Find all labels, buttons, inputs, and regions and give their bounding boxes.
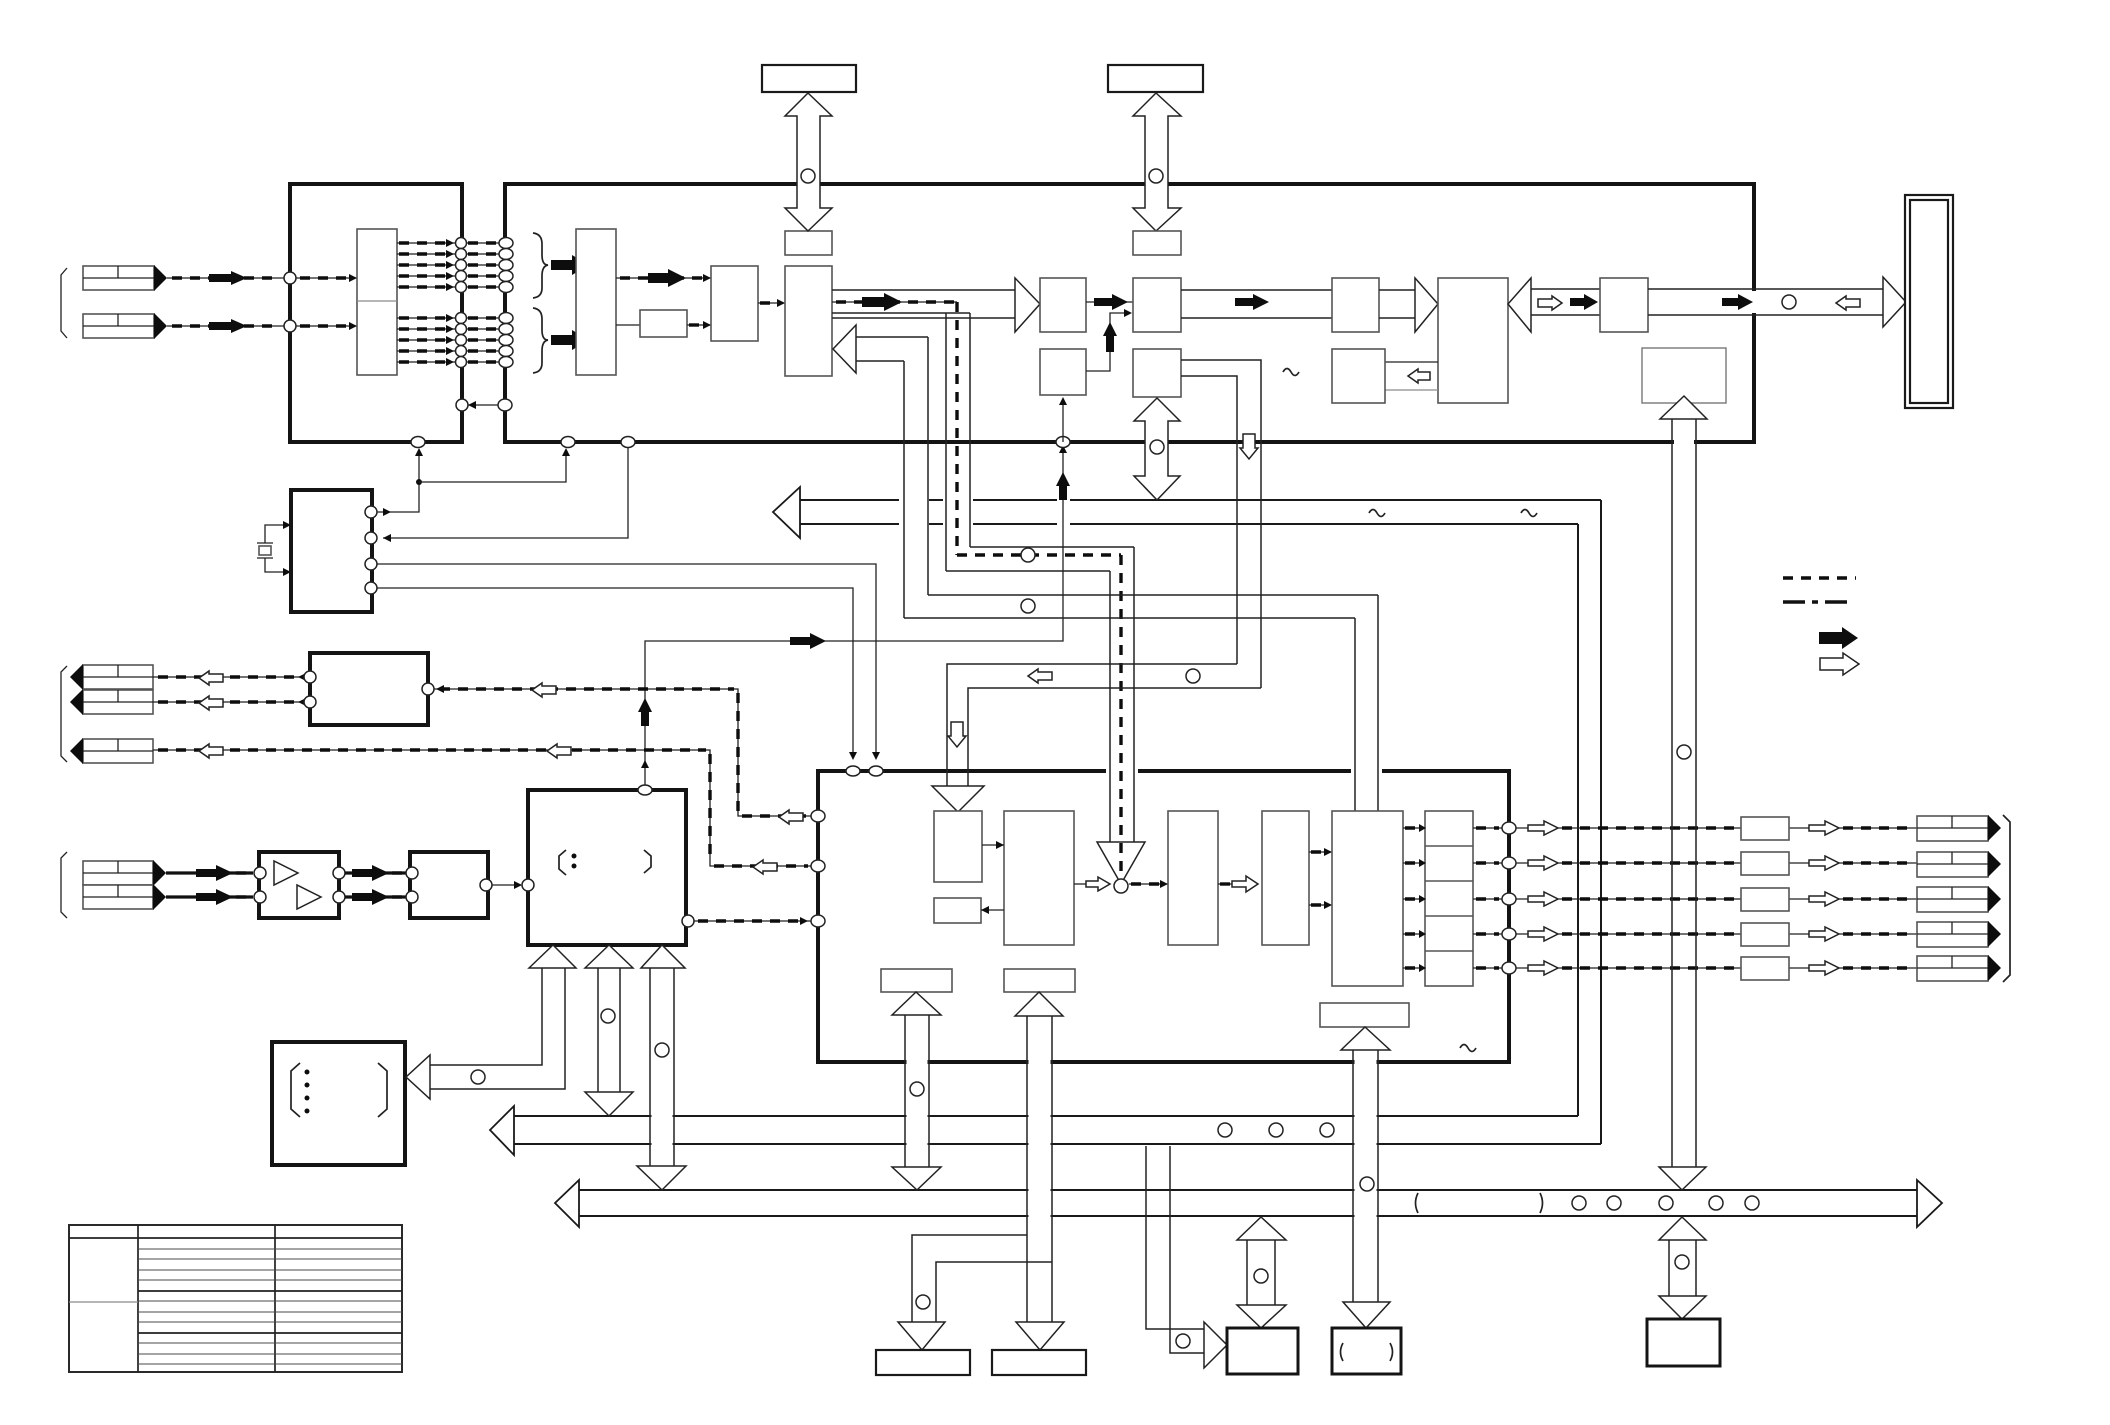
wire: bus-II hollow arrow into memory controller	[833, 325, 1378, 811]
wire: ADC lower out via delay rect	[616, 324, 640, 326]
node: oscillator pin circles	[365, 506, 377, 518]
wire: camera line 2 to amp	[166, 889, 253, 905]
glyph: big filled arrow lower into ADC	[551, 330, 589, 350]
block: Y/C main box	[1438, 278, 1508, 403]
block: amplifier box	[259, 852, 339, 918]
node: amp input circles	[254, 867, 266, 879]
wire: select to syscon	[492, 881, 522, 889]
block: bottom box 1	[876, 1350, 970, 1375]
glyph: legend filled arrow	[1819, 627, 1858, 649]
block: small delay rect	[640, 310, 687, 337]
node: central box top ellipses	[846, 766, 860, 776]
block: video process box 3	[1332, 278, 1379, 332]
wire: C-bus top horizontal (left-pointing wide arrow)	[773, 487, 1601, 538]
block: bottom box 4 with parens	[1332, 1328, 1401, 1374]
wire: dashed record signal inside bus	[832, 293, 957, 311]
block: timing/oscillator box	[291, 490, 372, 612]
wire: memory ctrl wide output bus with arrowhead	[832, 278, 1040, 332]
wire: vertical double arrow rect2 to small rect2	[1133, 93, 1181, 231]
wire: L2 bus down with branch to bottom boxes	[898, 992, 1064, 1350]
block: tv/tuner box	[310, 653, 428, 725]
wire: bus box2 to box3	[1181, 290, 1332, 318]
block: top external rect 2	[1108, 65, 1203, 92]
node: circles inside mid bus	[1218, 1123, 1232, 1137]
wire: L3 long double arrow down to box4	[1341, 1027, 1390, 1328]
block: mechanism box with dots	[272, 1042, 405, 1165]
wire: syscon double arrow to mid bus	[585, 945, 633, 1116]
node: amp output circles	[333, 867, 345, 879]
connector: mid-left plug 3 (output)	[70, 738, 153, 764]
wire: bus-I vertical down with arrowhead to junction	[1097, 547, 1145, 884]
block: memory controller tall box	[785, 266, 832, 376]
node: ellipses on top board bottom edge	[411, 437, 425, 448]
node: right edge ellipses x5	[1502, 822, 1516, 834]
block: lower small box 1 (sync sep)	[1040, 349, 1086, 395]
wire: ADC out dashed to EQ box	[616, 269, 711, 287]
wire: delay to EQ dashed	[687, 321, 711, 329]
wire: Y/C lower link to dropout box	[1385, 362, 1438, 390]
component: crystal on oscillator	[257, 521, 291, 576]
block: box F matrix	[1332, 811, 1403, 986]
block: box D	[1168, 811, 1218, 945]
node: syscon top ellipse	[638, 785, 652, 795]
wire: hollow arrow into Y/C from right bus	[1508, 278, 1600, 332]
wire: bus2 below main bus to box5 (double arrow)	[1659, 1217, 1706, 1319]
block: RF modulator box	[1600, 278, 1648, 332]
block: label box L1	[881, 969, 952, 992]
node: small circle column on left box right edge	[456, 238, 467, 368]
block: small rect above memory controller	[785, 231, 832, 255]
glyph: legend dashed line	[1783, 576, 1856, 579]
bracket: middle-left output bracket	[61, 666, 67, 762]
block: inner head-switch rect in left box	[357, 229, 397, 375]
node: circle between harness lines	[1021, 599, 1035, 613]
glyph: legend dash-dot line	[1783, 600, 1853, 603]
glyph: D to E thick hollow arrow	[1218, 876, 1258, 892]
wire: 10 dashed head lines group (upper)	[397, 239, 500, 291]
block: CRT display double rect	[1905, 195, 1953, 408]
block: tall ADC column box	[576, 229, 616, 375]
connector: camera plug 1	[83, 860, 166, 886]
block: small rect 2 above video box	[1133, 231, 1181, 255]
block: left big board box	[290, 184, 462, 442]
block: box B main dsp	[1004, 811, 1074, 945]
wire: E to F dashes	[1309, 848, 1332, 909]
node: ellipse column on right box left edge	[499, 238, 513, 368]
node: tuner right circle	[422, 683, 434, 695]
wire: double arrow main bus to box3	[1237, 1217, 1286, 1328]
wire: stack to right edge dashes x5	[1473, 828, 1502, 968]
block: dropout compensation box	[1332, 349, 1385, 403]
wire: dashed line plug2 to left box	[167, 319, 284, 333]
wire: vertical double hollow arrow below vco	[1134, 398, 1180, 500]
wire: tuner out2 dashed to plug2	[153, 696, 306, 710]
block: main top board box	[505, 184, 1754, 442]
connector: camera plug 2	[83, 884, 166, 910]
connector: top-left plug 1	[83, 265, 167, 291]
wire: 10 dashed head lines group (lower)	[397, 314, 500, 366]
block: 5 output driver small boxes	[1741, 817, 1789, 980]
wire: osc in2 from main board	[383, 448, 628, 542]
wire: syscon sense line up and over to main board	[638, 397, 1070, 786]
node: junction circle at dashed arrival	[1114, 879, 1128, 893]
bracket: right output bracket	[2003, 815, 2010, 982]
connector: top-left plug 2	[83, 313, 167, 339]
connector: mid-left plug 1 (output)	[70, 664, 153, 690]
block: output driver stack of 5	[1425, 811, 1473, 986]
component: amp triangle 1	[274, 861, 298, 885]
glyph: curly brace lower	[533, 308, 548, 373]
wire: dashed junction to box D	[1129, 880, 1168, 888]
node: tuner left edge circles	[304, 671, 316, 683]
wire: long dashed from elbow to plug3	[153, 744, 812, 874]
wire: servo bus from vco right to box A (Z path)	[932, 360, 1261, 812]
block: box C small	[934, 898, 981, 923]
glyph: hollow arrows after edge x5	[1528, 821, 1558, 975]
wire: osc out3 long to central box	[377, 564, 880, 760]
block: box A input stage	[934, 811, 982, 882]
wire: bus-I elbow right to video down bus	[946, 547, 1134, 571]
wire: branch from mid bus down to box3 (L path)	[1146, 1146, 1227, 1368]
wire: C-bus right vertical pair	[1578, 500, 1601, 1144]
block: bottom right box 5	[1647, 1319, 1720, 1366]
block: box E	[1262, 811, 1309, 945]
block: input select box	[410, 852, 488, 918]
wire: B to C arrow (left)	[981, 906, 1004, 914]
wire: tuner right dashed to central box	[434, 683, 812, 824]
block: top external rect 1 (cassette memory)	[762, 65, 856, 92]
bracket: top-left input bracket	[61, 268, 67, 338]
wire: dashed line plug1 to left box	[167, 271, 284, 285]
wire: white gaps in C-bus at harness crossings	[899, 497, 929, 527]
wire: bus RF box to CRT	[1648, 277, 1906, 327]
wire: tuner out1 dashed to plug1	[153, 671, 306, 685]
block: central processor board box	[818, 771, 1509, 1062]
wire: white gaps in central box top edge	[1106, 767, 1138, 775]
block: servo box right	[1642, 348, 1726, 403]
wire: 5 dashed outputs to small boxes and connectors	[1516, 828, 1917, 968]
connector: mid-left plug 2 (output)	[70, 689, 153, 715]
block: bottom-left revision table	[69, 1225, 402, 1372]
wire: dashed playback path through bus-I	[957, 302, 1121, 876]
wire: amp to select box line1	[345, 865, 406, 881]
glyph: filled arrow box1 to box2	[1086, 294, 1133, 310]
wire: bus-I vertical pair from memory controller	[832, 313, 970, 571]
wire: amp to select box line2	[345, 889, 406, 905]
glyph: curly brace upper	[533, 233, 548, 298]
glyph: big filled arrow upper into ADC	[551, 255, 589, 275]
wire: F to stack dashes x5	[1403, 824, 1426, 972]
bracket: camera-in bracket	[61, 852, 67, 918]
wire: main bottom horizontal bus (double ended)	[555, 1180, 1942, 1227]
wire: vertical double arrow rect1 to small rect	[785, 93, 832, 231]
wire: syscon double arrow to main bus	[637, 945, 686, 1190]
wire: L-link syncsep to vco with filled up arrow	[1086, 309, 1132, 371]
node: central box left ellipses	[811, 810, 825, 822]
glyph: hollow arrows after driver boxes x5	[1809, 821, 1839, 975]
block: label box L2	[1004, 969, 1075, 992]
node: circles on left box edge	[284, 272, 296, 284]
glyph: dots box parens and dot column	[291, 1063, 387, 1117]
glyph: squiggle marks	[1283, 369, 1299, 376]
wire: mid horizontal bus (left-pointing wide arrow)	[490, 1106, 1601, 1155]
connector: right output plugs x5	[1917, 815, 2001, 981]
block: video process box 1	[1040, 278, 1086, 332]
wire: A to B arrow	[982, 841, 1004, 849]
wire: bus2 servo vertical (box G to main bus)	[1659, 396, 1707, 1190]
block: bottom box 3	[1227, 1328, 1298, 1374]
block: syscon box	[528, 790, 686, 945]
glyph: syscon internal parens and dots	[559, 850, 651, 875]
wire: camera line 1 to amp	[166, 865, 253, 881]
wire: EQ to memory controller dashed	[758, 299, 785, 307]
wire: dashes inside left box to inner rect	[296, 277, 357, 279]
wire: inter-board link with left arrow	[456, 399, 512, 411]
glyph: B output hollow arrow to junction	[1074, 877, 1110, 891]
block: bottom box 2	[992, 1350, 1086, 1375]
node: syscon right circle	[682, 915, 694, 927]
component: amp triangle 2	[297, 885, 321, 909]
wire: box3 to Y/C box arrowhead	[1379, 278, 1438, 332]
wire: osc out4 long to central box	[377, 588, 857, 760]
node: parens and circles inside main bus	[1416, 1193, 1419, 1213]
wire: L1 double arrow to main bus	[892, 992, 941, 1190]
wire: syscon arrow to dots box (L shape)	[406, 945, 576, 1099]
wire: syscon right dashed to central box	[694, 917, 812, 925]
block: video process box 2	[1133, 278, 1181, 332]
node: select box circles	[406, 867, 418, 879]
wire: osc out1 to board ellipses	[377, 448, 570, 516]
node: syscon left circle	[522, 879, 534, 891]
block: EQ box	[711, 266, 758, 341]
block: label box L3	[1320, 1003, 1409, 1027]
glyph: legend hollow arrow	[1820, 653, 1859, 675]
block: lower small box 2 (vco)	[1133, 349, 1181, 397]
